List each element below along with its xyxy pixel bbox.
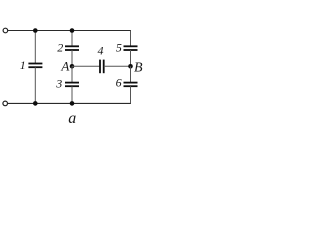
terminal top-left [3, 28, 8, 33]
terminal bottom-left [3, 101, 8, 106]
wire bottom horizontal [8, 102, 131, 104]
wire right upper-middle segment [130, 50, 132, 66]
svg-text:2: 2 [57, 40, 63, 54]
wire branch1 upper segment [34, 31, 36, 64]
svg-text:3: 3 [55, 77, 62, 91]
capacitor C3 [65, 83, 79, 87]
node B [128, 64, 133, 69]
junction dot bottom branch1 [33, 101, 38, 106]
label 5 [116, 41, 122, 55]
label 6 [116, 76, 122, 90]
wire branch2 top segment [71, 31, 73, 47]
wire top horizontal [8, 30, 131, 32]
label 2 [57, 40, 63, 54]
svg-text:1: 1 [20, 58, 26, 72]
wire right lower-middle segment [130, 66, 132, 82]
capacitor C6 [124, 83, 138, 87]
wire C4 to B [104, 65, 131, 67]
capacitor C1 [28, 64, 42, 68]
wire branch1 lower segment [34, 67, 36, 103]
wire branch2 middle upper segment [71, 50, 73, 66]
capacitor C4 [100, 60, 104, 74]
label 3 [55, 77, 62, 91]
label B [134, 61, 143, 76]
wire right top segment [130, 31, 132, 47]
label A [60, 59, 69, 74]
svg-text:a: a [68, 110, 76, 127]
svg-text:5: 5 [116, 41, 122, 55]
figure label a [68, 110, 76, 127]
label 4 [98, 43, 104, 57]
wire A to C4 [72, 65, 100, 67]
svg-text:B: B [134, 61, 143, 76]
node A [70, 64, 75, 69]
wire branch2 middle lower segment [71, 66, 73, 82]
svg-text:6: 6 [116, 76, 122, 90]
wire branch2 bottom segment [71, 86, 73, 103]
svg-text:4: 4 [98, 43, 104, 57]
junction dot top branch1 [33, 28, 38, 33]
svg-text:A: A [60, 59, 69, 74]
label 1 [20, 58, 26, 72]
wire right bottom segment [130, 86, 132, 103]
junction dot bottom branch2 [70, 101, 75, 106]
capacitor C5 [124, 46, 138, 50]
capacitor C2 [65, 46, 79, 50]
junction dot top branch2 [70, 28, 75, 33]
